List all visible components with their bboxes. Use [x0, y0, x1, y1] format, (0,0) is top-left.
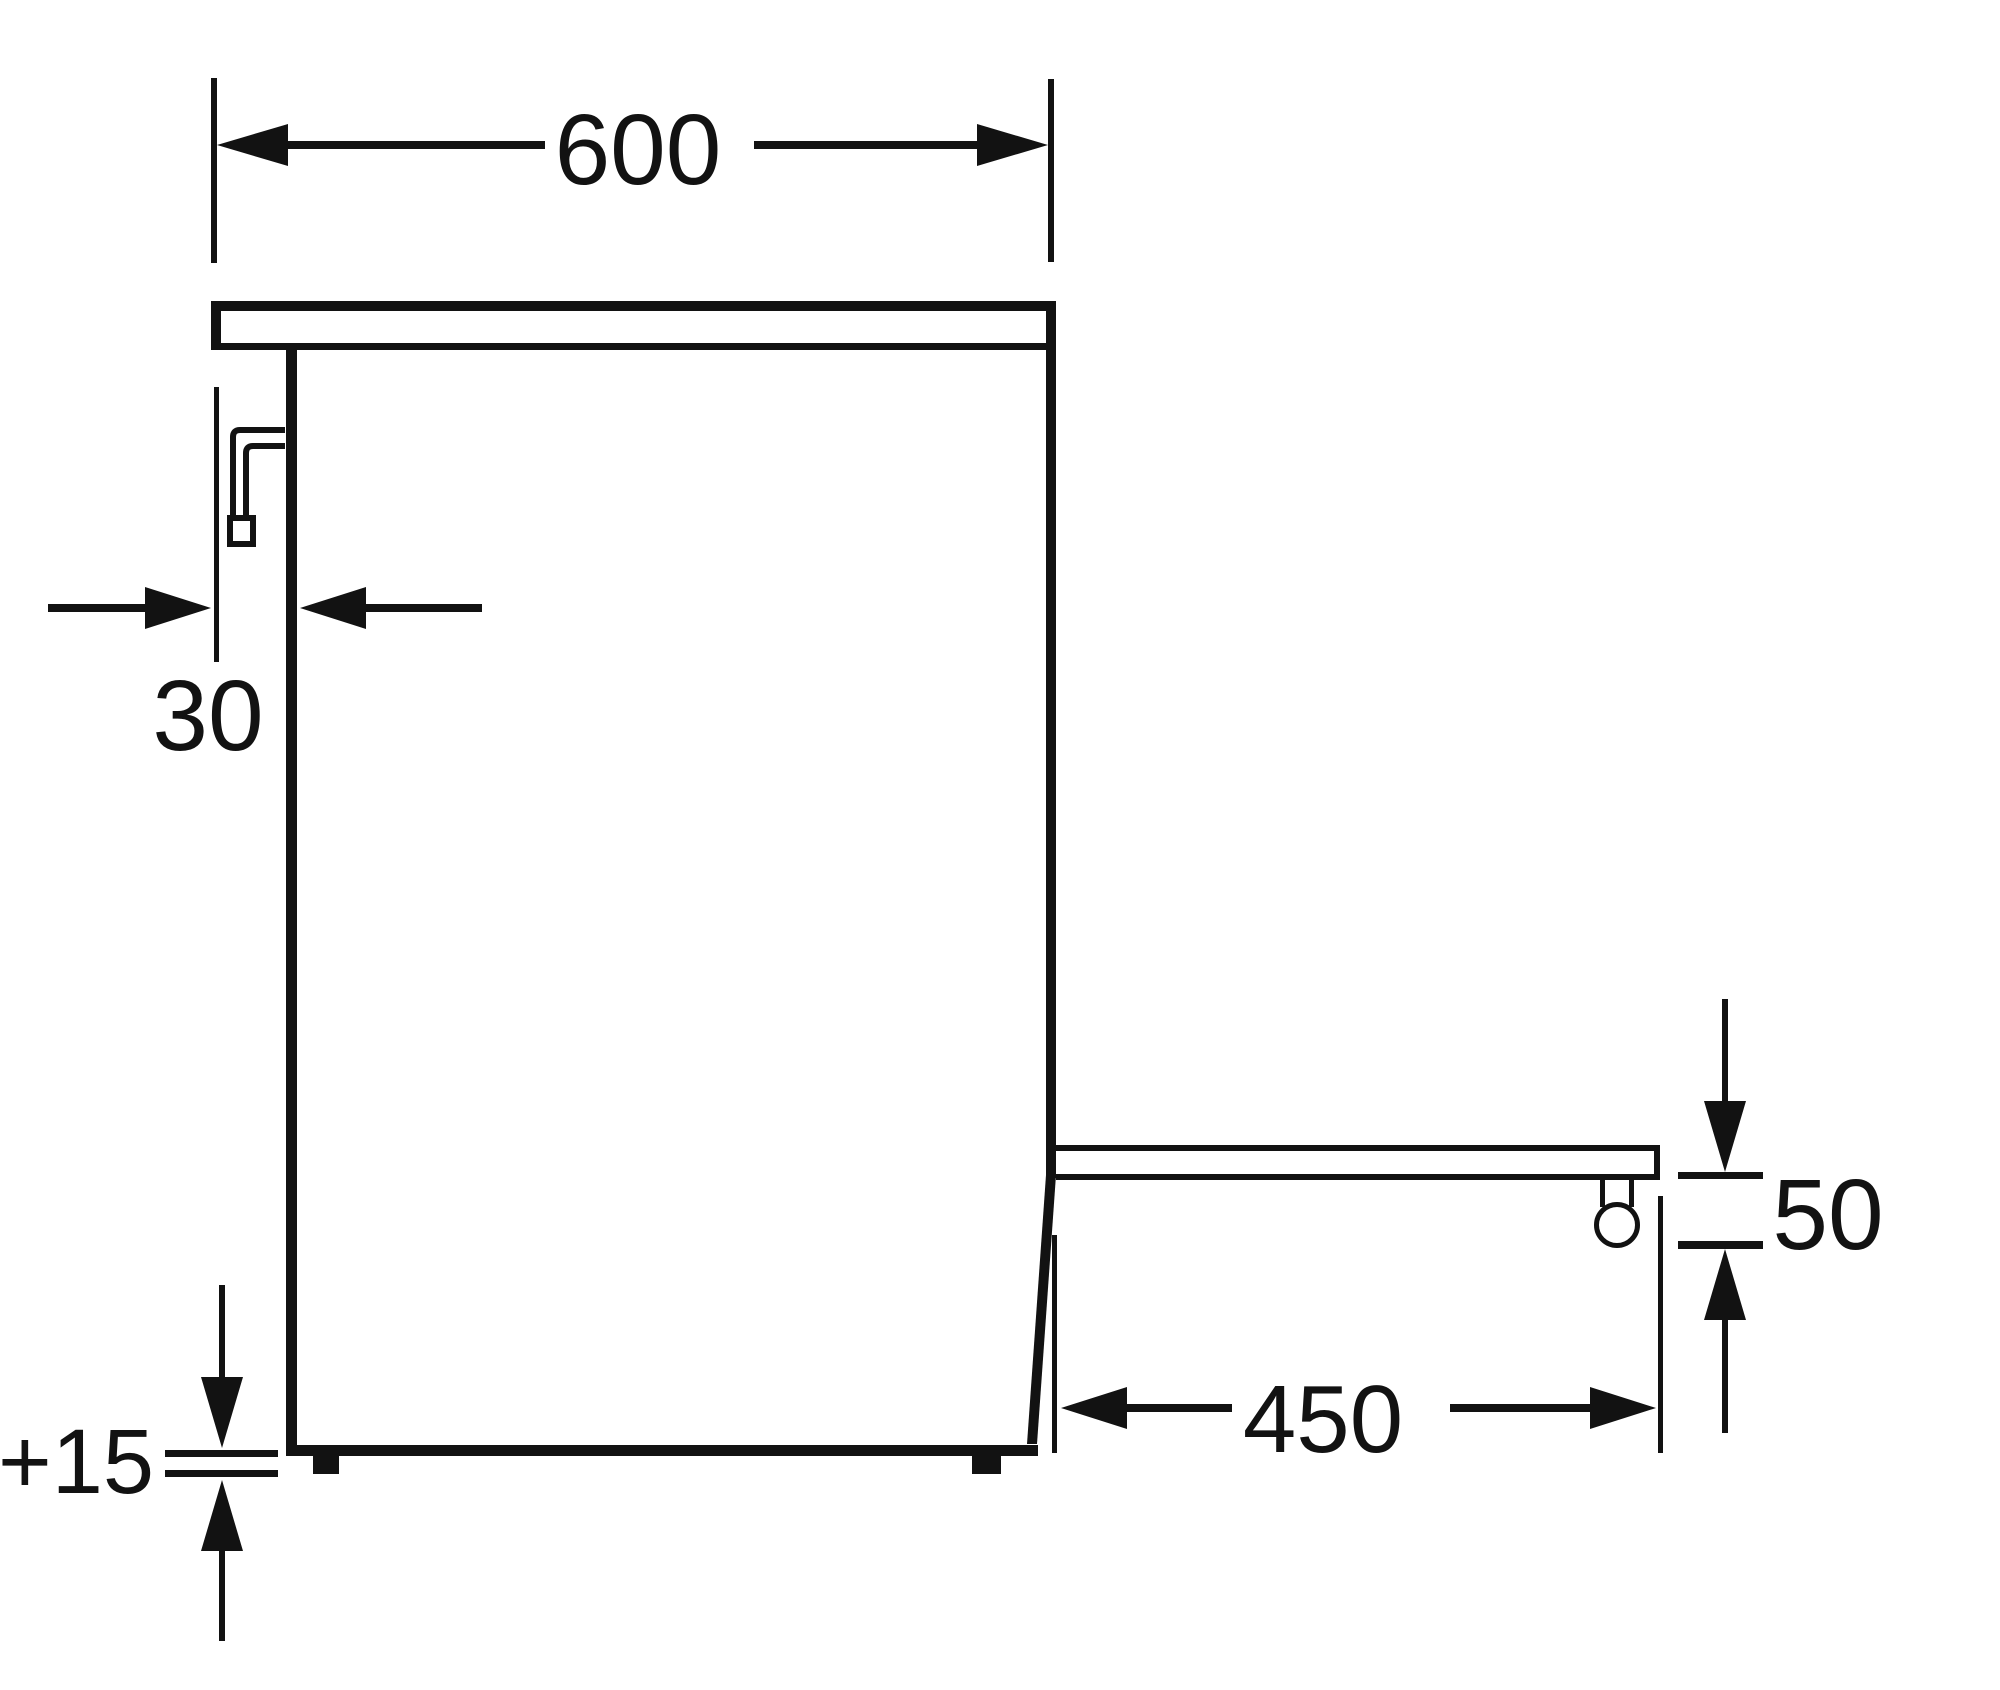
roller bracket left: [1600, 1180, 1605, 1207]
dim-450 left arrowhead: [1061, 1387, 1127, 1429]
worktop bottom line: [221, 343, 1051, 350]
left foot: [313, 1456, 339, 1474]
dim-15 lower arrowhead: [201, 1480, 243, 1551]
appliance left wall: [286, 344, 297, 1456]
dim-15 upper arrowhead: [201, 1377, 243, 1448]
dim-50 lower arrowhead: [1704, 1249, 1746, 1320]
open door end edge: [1654, 1145, 1660, 1180]
dim-30 right arrowhead: [300, 587, 366, 629]
dim-600 right line segment: [754, 141, 981, 149]
open door bottom line: [1056, 1174, 1660, 1180]
dim-600 right arrowhead: [977, 124, 1048, 166]
dim-15 upper tick: [165, 1450, 278, 1457]
svg-text:+15: +15: [0, 1411, 154, 1513]
dim-450 left tail: [1123, 1404, 1232, 1412]
dim-30 left tail: [48, 604, 148, 612]
dim-30 right tail: [362, 604, 482, 612]
roller bracket right: [1629, 1180, 1634, 1207]
appliance front door (tilted): [1027, 1175, 1056, 1444]
power cord outer bend: [233, 430, 285, 515]
svg-text:600: 600: [555, 94, 722, 206]
svg-text:30: 30: [152, 660, 263, 772]
dim-450 left extension line: [1052, 1235, 1057, 1453]
right foot: [972, 1456, 1001, 1474]
dim-30 extension line: [214, 387, 219, 662]
dim-50 upper arrowhead: [1704, 1101, 1746, 1172]
power cord plug cap: [230, 518, 253, 544]
svg-text:450: 450: [1243, 1366, 1403, 1473]
open door top line: [1056, 1145, 1660, 1151]
appliance bottom line: [286, 1445, 1038, 1456]
dim-450 right tail: [1450, 1404, 1590, 1412]
dim-15 lower arrow line: [219, 1547, 225, 1641]
dim-50 upper tick: [1678, 1172, 1763, 1179]
dim-50 lower arrow line: [1722, 1316, 1728, 1433]
appliance right wall: [1046, 301, 1056, 1178]
svg-text:50: 50: [1772, 1159, 1883, 1271]
dim-15 lower tick: [165, 1470, 278, 1477]
dim-30 left arrowhead: [145, 587, 211, 629]
worktop top line: [211, 301, 1056, 311]
dim-450 right extension line: [1658, 1196, 1663, 1453]
dim-600 left extension line: [211, 78, 217, 263]
power cord inner bend: [246, 446, 285, 515]
dim-450 right arrowhead: [1590, 1387, 1656, 1429]
dim-15 upper arrow line: [219, 1285, 225, 1380]
dim-600 left arrowhead: [217, 124, 288, 166]
dim-50 upper arrow line: [1722, 999, 1728, 1104]
worktop left edge: [211, 301, 221, 350]
dim-600 right extension line: [1048, 79, 1054, 262]
dim-50 lower tick: [1678, 1241, 1763, 1249]
roller wheel: [1597, 1205, 1638, 1246]
dim-600 left line segment: [284, 141, 545, 149]
